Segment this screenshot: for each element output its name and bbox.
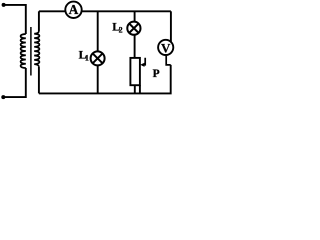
wire bottom [39, 65, 171, 94]
wire V bottom stub [166, 56, 171, 65]
ammeter A1 [65, 2, 81, 18]
svg-text:1: 1 [85, 53, 89, 62]
wire P bottom lead [134, 85, 136, 93]
wire top [39, 10, 171, 12]
lamp L2 [127, 22, 140, 35]
wire right upper [170, 11, 172, 43]
transformer primary winding [21, 34, 26, 68]
wire secondary bottom lead [38, 67, 40, 94]
transformer secondary winding [34, 31, 39, 67]
transformer core [30, 27, 32, 76]
wire primary bottom [3, 68, 26, 97]
terminal top-left [2, 3, 6, 7]
rheostat P box [130, 58, 140, 85]
svg-text:2: 2 [119, 25, 123, 34]
wire primary top [4, 5, 26, 34]
lamp L1 [91, 51, 105, 65]
wire P right-edge lead to bottom [139, 85, 141, 93]
svg-text:V: V [161, 41, 171, 56]
wire branch L1 [97, 11, 99, 93]
svg-text:A: A [69, 2, 79, 17]
svg-text:P: P [153, 68, 160, 80]
wire secondary top lead [38, 11, 40, 31]
wire branch L2 [134, 11, 136, 58]
terminal bottom-left [1, 95, 5, 99]
rheostat wiper arrow [140, 58, 145, 67]
voltmeter V1 [158, 40, 173, 56]
